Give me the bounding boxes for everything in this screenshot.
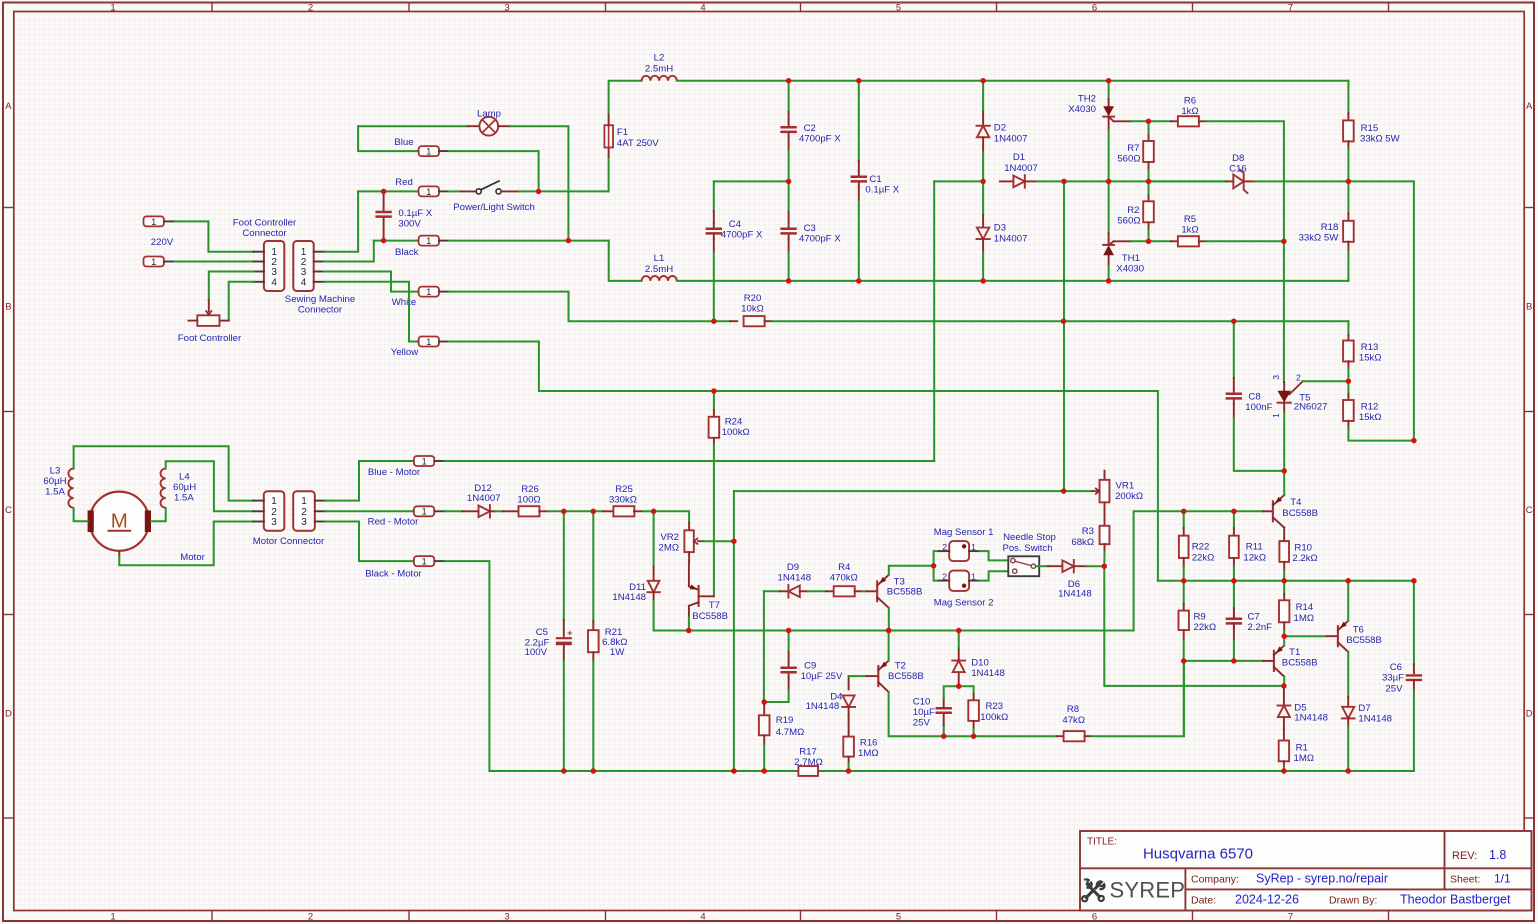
svg-text:T6: T6 — [1353, 624, 1364, 635]
svg-text:TH2: TH2 — [1078, 93, 1096, 104]
svg-text:Foot Controller: Foot Controller — [233, 218, 297, 229]
svg-text:0.1µF X: 0.1µF X — [398, 208, 432, 219]
svg-text:68kΩ: 68kΩ — [1071, 537, 1094, 548]
resistor R4 470k — [808, 590, 826, 592]
svg-text:C5: C5 — [536, 627, 548, 638]
diode D3 1N4007 — [982, 181, 984, 215]
junction C4 bottom on R20 line — [711, 318, 717, 324]
svg-text:R5: R5 — [1184, 214, 1196, 225]
junction D10 top bus — [956, 628, 962, 634]
resistor R7 560 — [1148, 121, 1150, 135]
diode D4 1N4148 — [848, 676, 850, 689]
svg-text:R2: R2 — [1127, 205, 1139, 216]
junction — [980, 278, 986, 284]
wire black line to sewing pin2 — [324, 241, 374, 262]
svg-text:Company:: Company: — [1191, 873, 1239, 885]
wire motor bottom to motor connector pin3 — [119, 522, 253, 566]
wire motor pin1 to Blue-Motor flag — [325, 461, 414, 501]
svg-text:X4030: X4030 — [1116, 264, 1144, 275]
wire right bus — [1158, 580, 1414, 582]
svg-text:60µH: 60µH — [173, 482, 196, 493]
svg-text:Drawn By:: Drawn By: — [1329, 894, 1377, 906]
svg-text:15kΩ: 15kΩ — [1359, 353, 1382, 364]
svg-text:1.5A: 1.5A — [174, 493, 194, 504]
wire T6 collector to D7 — [1347, 652, 1349, 697]
svg-text:100Ω: 100Ω — [517, 495, 540, 506]
svg-text:1.5A: 1.5A — [45, 487, 65, 498]
wire T2 emitter to bus — [888, 631, 890, 661]
net flag Red — [419, 186, 439, 196]
junction D1 node — [980, 179, 986, 185]
wire T3 collector to bus — [888, 608, 890, 631]
svg-text:C1: C1 — [869, 174, 881, 185]
svg-text:X4030: X4030 — [1068, 104, 1096, 115]
svg-text:R18: R18 — [1321, 222, 1339, 233]
junction R16 bottom rail — [846, 768, 852, 774]
svg-text:Mag Sensor 2: Mag Sensor 2 — [934, 597, 994, 608]
wire T6 base line — [1284, 635, 1327, 637]
svg-text:Connector: Connector — [298, 305, 343, 316]
svg-text:10kΩ: 10kΩ — [741, 304, 764, 315]
svg-text:1: 1 — [426, 236, 431, 246]
junction C8 top on R20 line — [1231, 318, 1237, 324]
capacitor C9 10uF 25V — [788, 631, 790, 653]
resistor R5 1k — [1149, 240, 1172, 242]
svg-text:D12: D12 — [474, 483, 492, 494]
svg-text:Blue - Motor: Blue - Motor — [368, 467, 421, 478]
svg-text:C6: C6 — [1390, 662, 1402, 673]
junction D10 bottom node — [956, 683, 962, 689]
svg-text:R11: R11 — [1246, 542, 1263, 553]
svg-text:R9: R9 — [1194, 612, 1206, 623]
svg-text:470kΩ: 470kΩ — [830, 572, 858, 583]
svg-text:33µF: 33µF — [1382, 673, 1404, 684]
svg-text:1: 1 — [151, 217, 156, 227]
SYREP logo — [1086, 884, 1099, 897]
svg-text:VR1: VR1 — [1116, 480, 1135, 491]
svg-text:Black - Motor: Black - Motor — [365, 569, 422, 580]
transistor T7 BC558B — [688, 562, 690, 586]
wire D1 line left segment to blue-motor drop — [933, 181, 935, 461]
svg-text:1N4007: 1N4007 — [994, 233, 1028, 244]
svg-text:3: 3 — [271, 517, 277, 528]
svg-text:6: 6 — [1092, 911, 1097, 922]
junction R9 bottom T1 base node — [1181, 658, 1187, 664]
mag sensor 2 — [949, 571, 969, 591]
svg-text:1MΩ: 1MΩ — [1294, 753, 1315, 764]
svg-text:22kΩ: 22kΩ — [1192, 552, 1215, 563]
svg-text:R24: R24 — [725, 416, 743, 427]
svg-text:Sewing Machine: Sewing Machine — [285, 294, 355, 305]
svg-text:25V: 25V — [1385, 683, 1403, 694]
wire black to L1 — [609, 241, 642, 281]
wire motor pin3 to Black-Motor flag — [325, 522, 414, 562]
junction — [1061, 488, 1067, 494]
svg-text:5: 5 — [896, 911, 901, 922]
wire top rail — [677, 80, 1349, 82]
net flag Black - Motor — [414, 556, 434, 566]
svg-text:1N4007: 1N4007 — [994, 133, 1028, 144]
svg-text:D10: D10 — [971, 657, 989, 668]
svg-text:25V: 25V — [913, 718, 931, 729]
resistor R8 47k — [1057, 735, 1064, 737]
svg-text:1: 1 — [110, 911, 115, 922]
wire lamp loop left down to Blue flag — [358, 126, 419, 151]
thyristor TH1 X4030 — [1108, 181, 1110, 233]
svg-text:T7: T7 — [709, 600, 720, 611]
wire 220V-1 to connector pin1 — [175, 221, 254, 251]
svg-text:2.5mH: 2.5mH — [645, 264, 673, 275]
svg-text:1/1: 1/1 — [1494, 872, 1511, 886]
junction — [786, 278, 792, 284]
transistor T1 BC558B — [1263, 660, 1274, 662]
junction at TH 1108.6,181.4 — [1106, 179, 1112, 185]
svg-text:R7: R7 — [1127, 143, 1139, 154]
inductor L2 2.5mH — [642, 76, 677, 81]
diode D11 1N4148 — [653, 511, 655, 566]
svg-text:BC558B: BC558B — [1282, 658, 1318, 669]
wire mag node to MS1 pin2 — [934, 551, 939, 566]
net flag 220V line 2 — [144, 257, 164, 267]
junction D7 bottom rail — [1345, 768, 1351, 774]
wire T5 gate to R13R12 node — [1303, 380, 1349, 382]
junction — [786, 78, 792, 84]
junction wiper column bottom rail — [731, 768, 737, 774]
svg-text:C16: C16 — [1229, 164, 1247, 175]
svg-text:1: 1 — [422, 507, 427, 517]
svg-text:Motor: Motor — [180, 552, 205, 563]
wire switch to F1 corner — [520, 190, 609, 192]
PUT T5 2N6027 — [1283, 241, 1285, 382]
resistor R11 12k — [1233, 511, 1235, 528]
svg-text:560Ω: 560Ω — [1117, 154, 1140, 165]
inductor L3 — [68, 469, 73, 508]
wire R5 to T5 anode column — [1206, 240, 1284, 242]
wire R24 bottom to T7 base — [713, 445, 715, 597]
junction — [786, 628, 792, 634]
connector J3 Motor Connector left half — [264, 491, 285, 530]
svg-text:4700pF X: 4700pF X — [799, 134, 841, 145]
svg-text:Blue: Blue — [394, 137, 413, 148]
wire Black-Motor to bottom rail — [445, 561, 564, 771]
resistor R24 100k — [713, 391, 715, 410]
junction at 538.6,191.4 — [536, 189, 542, 195]
diode D6 1N4148 — [1062, 560, 1073, 572]
svg-text:Connector: Connector — [242, 228, 287, 239]
svg-text:2.2nF: 2.2nF — [1248, 622, 1273, 633]
svg-text:1: 1 — [426, 187, 431, 197]
svg-text:SYREP: SYREP — [1110, 878, 1186, 903]
svg-text:300V: 300V — [398, 219, 421, 230]
diode D12 1N4007 — [445, 510, 462, 512]
svg-text:10µF 25V: 10µF 25V — [801, 671, 843, 682]
svg-text:REV:: REV: — [1452, 850, 1477, 862]
svg-text:B: B — [1526, 302, 1532, 313]
wire L4 bottom to motor right brush — [151, 508, 166, 521]
svg-text:C10: C10 — [913, 696, 931, 707]
junction wiper column on R20 line — [1061, 318, 1067, 324]
junction cap top — [381, 189, 387, 195]
svg-text:12kΩ: 12kΩ — [1243, 552, 1266, 563]
svg-text:3: 3 — [1271, 375, 1281, 380]
resistor R1 1M — [1283, 729, 1285, 741]
junction VR2 wiper column — [731, 538, 737, 544]
svg-text:60µH: 60µH — [43, 476, 66, 487]
svg-text:+: + — [567, 628, 572, 638]
junction far right column 440.6 — [1411, 438, 1417, 444]
net flag 220V line 1 — [144, 216, 164, 226]
svg-text:BC558B: BC558B — [1346, 635, 1382, 646]
resistor R3 68k — [1104, 508, 1106, 526]
wire bottom rail — [564, 770, 1414, 772]
diode D9 1N4148 — [764, 590, 780, 592]
junction R6R7 node — [1146, 119, 1152, 125]
zener diode D8 C16 — [1149, 180, 1227, 182]
svg-text:15kΩ: 15kΩ — [1359, 412, 1382, 423]
svg-text:1N4148: 1N4148 — [1358, 713, 1392, 724]
svg-text:1N4148: 1N4148 — [806, 701, 840, 712]
wire mid line C4 to C2C3 node — [714, 180, 789, 182]
wire MS1 pin1 to switch — [979, 551, 1008, 560]
svg-text:C4: C4 — [729, 219, 742, 230]
svg-text:L4: L4 — [179, 471, 190, 482]
svg-text:L1: L1 — [654, 253, 665, 264]
svg-text:33kΩ 5W: 33kΩ 5W — [1360, 134, 1401, 145]
title block — [1080, 831, 1532, 911]
wire TH1 gate to R5 node — [1131, 240, 1149, 242]
svg-text:Pos. Switch: Pos. Switch — [1002, 543, 1052, 554]
capacitor C8 100nF — [1233, 321, 1235, 378]
svg-text:3: 3 — [301, 517, 307, 528]
junction C2 bottom node — [786, 179, 792, 185]
svg-text:R4: R4 — [838, 562, 851, 573]
junction T5 cathode node — [1281, 468, 1287, 474]
junction D6 R3 node — [1102, 563, 1108, 569]
svg-text:1N4007: 1N4007 — [1004, 163, 1038, 174]
wire R20 line down to R13 — [1347, 321, 1349, 335]
svg-text:Black: Black — [395, 247, 419, 258]
wire mag node to MS2 pin2 — [934, 566, 939, 581]
diode D7 1N4148 — [1347, 697, 1349, 707]
svg-text:R23: R23 — [986, 701, 1004, 712]
svg-text:C9: C9 — [804, 660, 816, 671]
capacitor C1 0.1uF X — [858, 81, 860, 161]
svg-text:BC558B: BC558B — [1282, 508, 1318, 519]
junction R5 node — [1146, 239, 1152, 245]
junction — [1106, 278, 1112, 284]
wire R9 node down to R8 line — [1183, 661, 1185, 736]
svg-text:1: 1 — [426, 287, 431, 297]
resistor R17 2.7M on rail — [798, 766, 818, 776]
svg-text:2: 2 — [1296, 373, 1301, 383]
svg-text:R6: R6 — [1184, 95, 1196, 106]
svg-text:2: 2 — [942, 571, 947, 581]
svg-text:D3: D3 — [994, 223, 1006, 234]
svg-text:4: 4 — [271, 277, 277, 288]
wire T2 collector down and right — [889, 692, 1057, 736]
svg-text:Motor Connector: Motor Connector — [253, 536, 325, 547]
wire T3 emitter to mag junction — [889, 566, 934, 575]
svg-text:2: 2 — [308, 911, 313, 922]
svg-text:1kΩ: 1kΩ — [1181, 106, 1198, 117]
transistor T3 BC558B — [867, 590, 878, 592]
svg-text:R17: R17 — [799, 747, 817, 758]
svg-text:Theodor Bastberget: Theodor Bastberget — [1400, 893, 1511, 907]
lamp LP1 — [358, 125, 468, 127]
svg-text:T4: T4 — [1290, 497, 1302, 508]
svg-text:Foot Controller: Foot Controller — [178, 333, 242, 344]
capacitor C10 10uF 25V — [943, 725, 945, 736]
junction T6 emitter bus — [1345, 578, 1351, 584]
wire F1 top to rail — [609, 81, 642, 113]
resistor R22 22k — [1183, 511, 1185, 528]
switch S1 Power/Light Switch — [449, 190, 461, 192]
junction — [711, 388, 717, 394]
svg-text:1MΩ: 1MΩ — [858, 748, 879, 759]
junction D11 top — [651, 509, 657, 515]
junction T2 emitter bus — [886, 628, 892, 634]
svg-text:R10: R10 — [1294, 542, 1312, 553]
svg-text:1kΩ: 1kΩ — [1181, 225, 1198, 236]
resistor R20 10k — [714, 320, 730, 322]
diode D5 1N4148 — [1283, 686, 1285, 706]
wire MS2 pin1 to switch — [979, 571, 1008, 580]
junction T7 collector on bus — [686, 628, 692, 634]
switch S2 Needle Stop Pos. Switch — [1008, 556, 1039, 576]
potentiometer VR2 2M — [688, 523, 690, 531]
wire TH2 gate to R6 node — [1131, 120, 1149, 122]
junction R1 bottom rail — [1281, 768, 1287, 774]
resistor R21 6.8k 1W — [592, 511, 594, 621]
junction R21 top — [591, 509, 597, 515]
svg-text:BC558B: BC558B — [888, 671, 924, 682]
wire D6 node down to T1 collector line — [1104, 566, 1284, 686]
svg-text:D: D — [1526, 709, 1533, 720]
wire D9 column — [763, 591, 765, 702]
junction — [856, 278, 862, 284]
svg-text:4.7MΩ: 4.7MΩ — [776, 727, 805, 738]
resistor R19 4.7M — [763, 702, 765, 715]
VR1 wiper arrow — [1064, 490, 1092, 492]
svg-text:L3: L3 — [50, 465, 61, 476]
wire T1 emitter up to T6 base node — [1283, 636, 1285, 645]
svg-text:Sheet:: Sheet: — [1450, 874, 1480, 886]
svg-text:1N4148: 1N4148 — [971, 668, 1005, 679]
svg-text:C: C — [5, 505, 12, 516]
transistor T2 BC558B — [849, 675, 867, 677]
svg-text:Red: Red — [395, 177, 413, 188]
junction R14 bottom T6 base node — [1281, 633, 1287, 639]
junction black-lamp — [566, 238, 572, 244]
svg-text:R1: R1 — [1296, 743, 1308, 754]
capacitor C5 2.2uF 100V — [563, 511, 565, 620]
svg-text:B: B — [5, 302, 11, 313]
wire switch to D6 — [1036, 565, 1048, 567]
junction C6 top bus — [1411, 578, 1417, 584]
svg-text:Husqvarna 6570: Husqvarna 6570 — [1143, 846, 1253, 863]
junction cap bottom — [381, 238, 387, 244]
potentiometer Foot Controller — [197, 315, 219, 326]
svg-text:7: 7 — [1288, 911, 1293, 922]
svg-text:A: A — [1526, 101, 1533, 112]
wire foot pin3 to foot controller wiper — [209, 272, 254, 301]
svg-text:D: D — [5, 709, 12, 720]
wire D1 out to TH nodes — [1036, 180, 1227, 182]
svg-text:7: 7 — [1288, 2, 1293, 13]
svg-text:1: 1 — [971, 542, 976, 552]
wire foot pin4 to foot controller right — [229, 282, 254, 321]
resistor R2 560 — [1148, 181, 1150, 196]
wire wiper column vertical — [1063, 181, 1065, 491]
svg-text:C7: C7 — [1248, 612, 1260, 623]
svg-text:C3: C3 — [804, 223, 816, 234]
svg-text:33kΩ 5W: 33kΩ 5W — [1299, 233, 1340, 244]
svg-text:4: 4 — [301, 277, 307, 288]
capacitor C2 4700pF X — [788, 81, 790, 112]
resistor R18 33k 5W — [1347, 181, 1349, 213]
wire wiper line to VR1 — [734, 490, 1064, 492]
svg-text:1N4148: 1N4148 — [1294, 713, 1328, 724]
wire L4 top to motor connector pin2 — [166, 461, 254, 511]
svg-text:100V: 100V — [525, 647, 548, 658]
thyristor TH2 X4030 — [1108, 81, 1110, 99]
junction R22 bottom bus — [1181, 578, 1187, 584]
svg-text:R21: R21 — [605, 627, 623, 638]
svg-text:D9: D9 — [787, 562, 799, 573]
svg-text:R16: R16 — [860, 738, 878, 749]
junction at R7R2 1148.5,181.4 — [1146, 179, 1152, 185]
connector J2 Sewing Machine Connector — [293, 241, 313, 291]
transistor T4 BC558B — [1263, 510, 1273, 512]
svg-text:100kΩ: 100kΩ — [980, 712, 1008, 723]
svg-text:560Ω: 560Ω — [1117, 216, 1140, 227]
net flag White — [419, 287, 439, 297]
capacitor C6 33uF 25V — [1413, 581, 1415, 664]
svg-text:2.7MΩ: 2.7MΩ — [794, 757, 823, 768]
svg-text:1N4007: 1N4007 — [467, 493, 501, 504]
svg-text:4: 4 — [700, 911, 705, 922]
svg-text:R3: R3 — [1082, 526, 1094, 537]
wire black line right — [449, 240, 609, 242]
junction mag sensor node — [931, 563, 937, 569]
net flag Red - Motor — [414, 506, 434, 516]
svg-text:6: 6 — [1092, 2, 1097, 13]
fuse F1 4AT 250V — [608, 157, 610, 192]
junction C9 R19 node — [761, 699, 767, 705]
wire sewing pin4 to Yellow flag — [324, 282, 418, 342]
wire L3 top to motor connector pin1 — [74, 446, 254, 500]
wire T4 base line — [1134, 511, 1263, 630]
wire R25 node to VR2 top — [654, 511, 690, 522]
wire lamp right to black junction — [510, 126, 569, 240]
junction C5 bottom rail — [561, 768, 567, 774]
junction T3 collector bus — [886, 628, 892, 634]
wire T1 base line — [1184, 660, 1263, 662]
capacitor C3 4700pF X — [788, 181, 790, 212]
wire 220V-2 to connector pin2 — [175, 261, 254, 263]
net flag Black — [419, 236, 439, 246]
svg-text:F1: F1 — [617, 127, 628, 138]
svg-text:47kΩ: 47kΩ — [1062, 715, 1085, 726]
junction R11 bottom bus — [1231, 578, 1237, 584]
svg-text:SyRep - syrep.no/repair: SyRep - syrep.no/repair — [1256, 872, 1388, 886]
svg-text:TH1: TH1 — [1122, 253, 1140, 264]
svg-text:1: 1 — [971, 571, 976, 581]
svg-text:1: 1 — [271, 496, 277, 507]
svg-text:4700pF X: 4700pF X — [799, 234, 841, 245]
wire White flag to R20 line — [449, 292, 714, 322]
svg-text:C: C — [1526, 505, 1533, 516]
